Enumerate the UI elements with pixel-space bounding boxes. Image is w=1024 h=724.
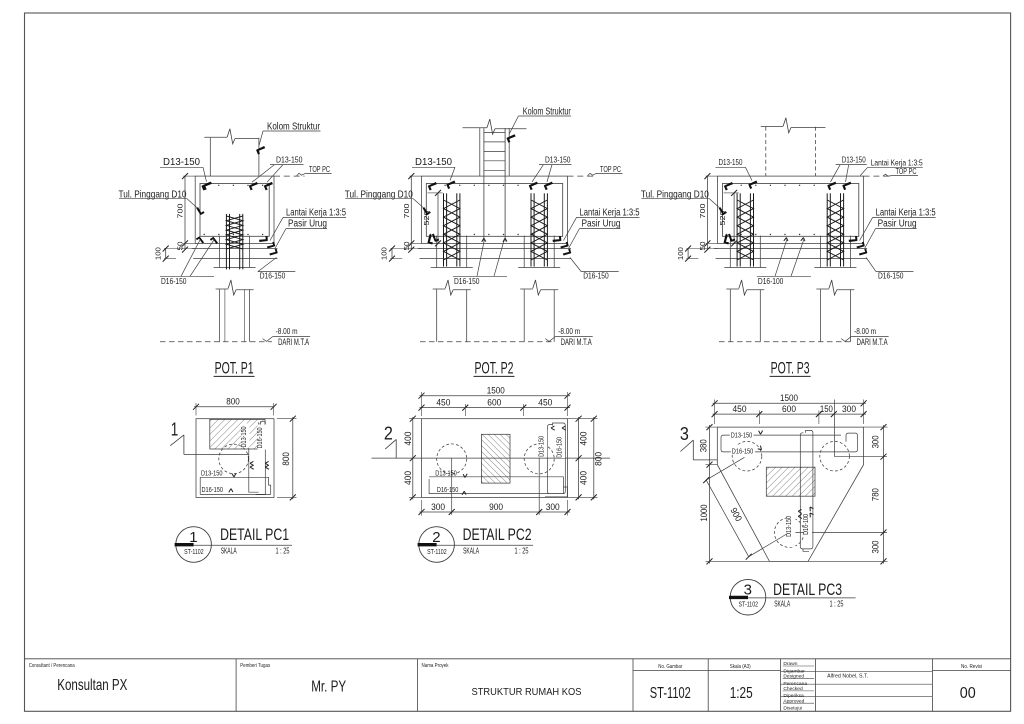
svg-text:D13-150: D13-150 <box>786 516 793 537</box>
POT. P3 rebar dots <box>726 185 727 186</box>
svg-text:POT. P3: POT. P3 <box>771 359 810 378</box>
POT. P1 layer leader hooks <box>266 240 277 251</box>
PC3 bottom pile centre leader <box>789 532 887 534</box>
POT. P3 pile 2 reinforcement <box>826 193 828 266</box>
PC2 dimension 800 right <box>593 417 595 499</box>
POT. P1 pile 1 reinforcement <box>225 214 227 270</box>
PC1 rotated label D16-150 <box>258 425 266 450</box>
svg-text:D13-150: D13-150 <box>545 155 571 165</box>
svg-text:300: 300 <box>871 435 881 448</box>
svg-text:Digambar: Digambar <box>783 668 805 674</box>
svg-text:D16-150: D16-150 <box>454 276 480 286</box>
POT. P2 TOP PC dashed level line <box>568 175 596 177</box>
PC3 title bubble <box>730 579 766 615</box>
svg-text:800: 800 <box>281 452 291 466</box>
PC1 right rebar band <box>258 422 260 448</box>
POT. P3 dimension 700 <box>706 176 708 250</box>
PC3 pile bottom (dashed circle) <box>774 518 804 548</box>
PC3 dimension 300/780/300 right <box>883 425 885 564</box>
svg-text:ST-1102: ST-1102 <box>650 685 691 702</box>
POT. P2 pile 1 lower segment <box>436 289 438 341</box>
POT. P2 -8.00 m level dashed line <box>420 341 554 343</box>
POT. P1 dimension 100 <box>165 249 167 259</box>
svg-text:1500: 1500 <box>487 386 505 396</box>
svg-text:TOP PC: TOP PC <box>600 165 621 174</box>
svg-text:D13-150: D13-150 <box>241 426 248 447</box>
svg-text:Lantai Kerja 1:3:5: Lantai Kerja 1:3:5 <box>876 207 936 218</box>
POT. P1 rebar dots <box>204 185 205 186</box>
svg-text:1500: 1500 <box>780 393 798 403</box>
PC3 dimension 900 diagonal <box>706 480 749 557</box>
svg-text:1 : 25: 1 : 25 <box>276 547 290 556</box>
svg-text:800: 800 <box>226 397 240 407</box>
POT. P3 -8.00 m level dashed line <box>719 341 851 343</box>
PC1 dimension 800 top <box>194 406 274 408</box>
POT. P2 column outline <box>479 128 481 176</box>
svg-text:300: 300 <box>431 502 445 512</box>
PC2 cut flag 2 <box>385 439 396 449</box>
POT. P1 stirrup inner outline <box>200 184 269 237</box>
PC3 dimension 450/600/150/300 <box>713 413 866 415</box>
POT. P1 waist bar hook <box>195 207 206 216</box>
svg-text:SKALA: SKALA <box>221 547 237 556</box>
svg-text:D13-150: D13-150 <box>201 470 223 477</box>
svg-text:POT. P2: POT. P2 <box>475 359 514 378</box>
POT. P3 pile 2 lower segment <box>819 289 821 341</box>
svg-text:300: 300 <box>871 541 881 554</box>
POT. P2 column ties <box>484 132 505 134</box>
svg-text:Checked: Checked <box>783 686 803 692</box>
svg-text:800: 800 <box>594 452 604 466</box>
svg-text:D13-150: D13-150 <box>539 436 546 457</box>
svg-text:D16-150: D16-150 <box>202 487 224 494</box>
PC2 rotated label D13-150 <box>539 430 547 458</box>
svg-text:DARI M.T.A: DARI M.T.A <box>857 337 888 347</box>
svg-text:400: 400 <box>579 432 589 446</box>
svg-text:Pasir Urug: Pasir Urug <box>878 219 917 230</box>
PC2 pile cap plan outline <box>422 419 568 498</box>
POT. P2 column top break line <box>463 127 488 129</box>
svg-text:D16-100: D16-100 <box>803 514 810 535</box>
PC1 small bar marks <box>232 473 236 477</box>
POT. P3 waist bar hook <box>717 207 728 216</box>
svg-text:450: 450 <box>733 404 747 414</box>
svg-text:600: 600 <box>487 398 501 408</box>
POT. P3 stirrup inner outline <box>722 184 858 237</box>
svg-text:Diperiksa: Diperiksa <box>783 693 804 699</box>
PC3 rotated label D13-150 bottom <box>787 505 795 547</box>
POT. P2 column rebar <box>483 128 485 241</box>
PC2 small bar marks <box>463 474 467 478</box>
PC1 cut flag 1 <box>170 435 184 446</box>
svg-text:ST-1102: ST-1102 <box>739 602 759 609</box>
svg-text:D13-150: D13-150 <box>435 470 457 477</box>
svg-text:1: 1 <box>189 529 197 546</box>
PC2 dimension 400/400 right <box>578 417 580 499</box>
PC2 pile centre leaders <box>451 458 453 515</box>
POT. P3 column top break line <box>761 125 783 127</box>
POT. P3 lantai kerja / pasir urug layer lines <box>714 248 867 250</box>
svg-text:700: 700 <box>698 204 707 219</box>
svg-text:D13-150: D13-150 <box>415 157 452 168</box>
svg-text:380: 380 <box>698 439 708 452</box>
svg-text:TOP PC: TOP PC <box>309 165 330 174</box>
POT. P2 pile 1 reinforcement <box>443 193 445 266</box>
PC3 top-right pile centre leader <box>834 400 836 457</box>
svg-text:D16-100: D16-100 <box>758 276 784 286</box>
PC1 rotated label D13-150 <box>241 424 249 448</box>
POT. P2 dimension 700 <box>410 176 412 250</box>
PC3 column hatched <box>766 467 815 496</box>
PC3 pile cap plan outline <box>717 427 863 561</box>
POT. P3 hidden column outline (dashed) <box>765 127 767 176</box>
PC3 label D16-150 top <box>731 445 755 453</box>
PC3 leader from bottom circle <box>749 533 790 557</box>
svg-text:Lantai Kerja 1:3:5: Lantai Kerja 1:3:5 <box>286 207 346 218</box>
svg-text:2: 2 <box>432 529 440 546</box>
POT. P1 stirrup corner hooks <box>200 180 211 192</box>
POT. P2 pile 2 lower segment <box>523 289 525 341</box>
svg-text:D16-150: D16-150 <box>257 427 264 448</box>
svg-text:No. Revisi: No. Revisi <box>961 664 982 670</box>
svg-text:450: 450 <box>538 398 552 408</box>
POT. P3 pile cap outline <box>718 176 864 243</box>
svg-text:1:25: 1:25 <box>730 685 753 702</box>
POT. P1 pile 1 <box>219 236 221 268</box>
svg-text:Konsultan PX: Konsultan PX <box>57 677 127 694</box>
POT. P2 stirrup corner hooks <box>426 180 437 192</box>
PC3 cut flag 3 <box>680 440 693 451</box>
POT. P1 lantai kerja / pasir urug layer lines <box>192 248 278 250</box>
PC3 pile top-right (dashed circle) <box>820 441 850 471</box>
POT. P1 pile 1 lower segment <box>219 289 221 341</box>
POT. P3 pile 1 lower segment <box>729 289 731 341</box>
svg-text:DETAIL PC2: DETAIL PC2 <box>463 526 532 544</box>
POT. P2 pile 1 <box>436 236 438 268</box>
POT. P2 pile 2 <box>523 236 525 268</box>
svg-text:D16-150: D16-150 <box>437 487 459 494</box>
PC2 dimension 450/600/450 <box>420 407 571 409</box>
svg-text:700: 700 <box>176 204 185 219</box>
POT. P3 pile 1 reinforcement <box>736 193 738 266</box>
PC2 dimension 300/900/300 bottom <box>420 511 571 513</box>
svg-text:SKALA: SKALA <box>774 599 790 608</box>
svg-text:DETAIL PC1: DETAIL PC1 <box>220 526 289 544</box>
POT. P2 layer leader hooks <box>560 240 571 251</box>
svg-text:D13-150: D13-150 <box>276 155 303 165</box>
svg-text:150: 150 <box>820 404 833 414</box>
PC1 column hatched <box>210 419 265 449</box>
svg-text:D16-150: D16-150 <box>556 437 563 458</box>
svg-text:Approved: Approved <box>783 698 804 704</box>
POT. P1 TOP PC dashed level line <box>274 175 305 177</box>
svg-text:D13-150: D13-150 <box>163 157 200 168</box>
svg-text:50: 50 <box>698 242 707 251</box>
PC2 pile right (dashed circle) <box>524 444 554 474</box>
POT. P2 column dowel arrows <box>482 238 486 242</box>
svg-text:D16-150: D16-150 <box>161 276 187 286</box>
svg-text:ST-1102: ST-1102 <box>184 549 204 556</box>
svg-text:SKALA: SKALA <box>463 547 479 556</box>
POT. P2 pile 2 reinforcement <box>530 193 532 266</box>
svg-text:1 : 25: 1 : 25 <box>515 547 529 556</box>
POT. P3 dimension 50 <box>706 242 718 244</box>
PC3 label D13-150 top <box>730 431 754 439</box>
svg-text:DARI M.T.A: DARI M.T.A <box>561 337 592 347</box>
svg-text:1000: 1000 <box>699 505 709 522</box>
PC1 bar leader vertical <box>249 448 259 492</box>
POT. P2 pile cap outline <box>422 176 568 243</box>
POT. P3 dimension 100 <box>687 249 689 259</box>
PC1 dimension 800 right <box>292 417 294 499</box>
PC3 rotated label D16-100 bottom <box>804 503 812 540</box>
POT. P2 dimension 50 <box>410 242 422 244</box>
svg-text:50: 50 <box>402 242 411 251</box>
PC3 pile top-left (dashed circle) <box>732 441 762 471</box>
svg-text:DETAIL PC3: DETAIL PC3 <box>773 581 842 599</box>
PC2 column hatched <box>481 434 510 483</box>
svg-text:1 : 25: 1 : 25 <box>830 599 844 608</box>
POT. P3 pile 1 <box>729 236 731 268</box>
PC3 section cut line 3 <box>693 459 717 461</box>
svg-text:Alfred Nobel, S.T.: Alfred Nobel, S.T. <box>827 674 868 680</box>
POT. P2 dimension 520 <box>437 193 439 244</box>
POT. P2 rebar dots <box>430 185 431 186</box>
PC2 title bubble <box>419 527 455 563</box>
svg-text:Lantai Kerja 1:3:5: Lantai Kerja 1:3:5 <box>871 158 923 168</box>
POT. P1 dimension 700 <box>184 176 186 250</box>
PC2 pile left (dashed circle) <box>437 444 467 474</box>
POT. P1 column top break line <box>204 136 227 138</box>
svg-text:D13-150: D13-150 <box>842 155 866 165</box>
svg-text:Perencana: Perencana <box>783 681 807 687</box>
svg-text:300: 300 <box>546 502 560 512</box>
POT. P1 pile cap outline <box>195 176 274 243</box>
svg-text:D13-150: D13-150 <box>719 158 743 167</box>
POT. P2 waist bar hook <box>421 207 432 216</box>
svg-text:ST-1102: ST-1102 <box>427 549 447 556</box>
PC2 section cut line 2 <box>372 457 611 459</box>
svg-text:DARI M.T.A: DARI M.T.A <box>278 337 309 347</box>
svg-text:Nama Proyek: Nama Proyek <box>422 663 449 669</box>
svg-text:TOP PC: TOP PC <box>896 167 917 176</box>
PC3 dimension 380/1000 left <box>709 425 711 564</box>
PC1 pile (dashed circle) <box>219 444 249 474</box>
POT. P3 dimension 520 <box>733 193 735 244</box>
PC2 bottom rebar band <box>429 477 563 494</box>
svg-text:D13-150: D13-150 <box>731 433 753 440</box>
PC1 pile cap plan outline <box>196 419 274 498</box>
svg-text:Pasir Urug: Pasir Urug <box>582 219 621 230</box>
POT. P2 lantai kerja / pasir urug layer lines <box>418 248 571 250</box>
svg-text:No. Gambar: No. Gambar <box>658 664 682 670</box>
title block row dividers <box>781 671 933 673</box>
svg-text:3: 3 <box>744 582 752 599</box>
svg-text:-8.00 m: -8.00 m <box>558 326 580 336</box>
svg-text:2: 2 <box>384 424 393 444</box>
svg-text:450: 450 <box>436 398 450 408</box>
svg-text:D16-150: D16-150 <box>732 448 754 455</box>
svg-text:3: 3 <box>680 424 689 444</box>
svg-text:Pemberi Tugas: Pemberi Tugas <box>240 663 270 669</box>
svg-text:Mr. PY: Mr. PY <box>311 678 346 695</box>
svg-text:50: 50 <box>176 242 185 251</box>
svg-text:100: 100 <box>153 247 162 260</box>
svg-text:00: 00 <box>960 685 976 702</box>
svg-text:Skala (A3): Skala (A3) <box>730 664 751 670</box>
PC2 right rebar band <box>547 423 565 494</box>
POT. P2 dimension 100 <box>391 249 393 259</box>
svg-text:Pasir Urug: Pasir Urug <box>288 219 327 230</box>
svg-text:700: 700 <box>402 204 411 219</box>
PC1 bottom rebar band <box>200 476 268 478</box>
svg-text:-8.00 m: -8.00 m <box>276 326 298 336</box>
PC2 dimension 1500 top <box>420 395 571 397</box>
POT. P3 pile 2 <box>819 236 821 268</box>
PC1 section cut line 1 <box>184 453 249 455</box>
POT. P1 column outline <box>209 138 211 176</box>
PC3 dimension 1500 top <box>713 402 866 404</box>
POT. P1 dimension 50 <box>183 242 195 244</box>
POT. P1 -8.00 m level dashed line <box>160 341 272 343</box>
PC1 title bubble <box>176 527 212 563</box>
POT. P2 stirrup inner outline <box>426 184 562 237</box>
svg-text:1: 1 <box>171 420 179 440</box>
PC2 dimension 400/400 left <box>412 417 414 499</box>
svg-text:Lantai Kerja 1:3:5: Lantai Kerja 1:3:5 <box>580 207 640 218</box>
svg-text:400: 400 <box>403 471 413 485</box>
svg-text:300: 300 <box>842 404 856 414</box>
svg-text:900: 900 <box>489 502 503 512</box>
svg-text:400: 400 <box>579 471 589 485</box>
svg-text:Consultant / Perencana: Consultant / Perencana <box>29 663 75 669</box>
svg-text:STRUKTUR RUMAH KOS: STRUKTUR RUMAH KOS <box>472 687 582 698</box>
svg-text:600: 600 <box>782 404 796 414</box>
svg-text:-8.00 m: -8.00 m <box>854 326 876 336</box>
PC2 rotated label D16-150 <box>557 430 565 458</box>
svg-text:400: 400 <box>403 432 413 446</box>
title block header underlines <box>633 670 708 672</box>
svg-text:Disetujui: Disetujui <box>783 706 802 712</box>
PC3 leader from top-left circle <box>706 457 744 480</box>
PC3 vertical rebar band <box>800 430 813 549</box>
POT. P3 layer leader hooks <box>856 240 867 251</box>
svg-text:100: 100 <box>676 247 685 260</box>
POT. P3 TOP PC dashed level line <box>864 175 891 177</box>
svg-text:POT. P1: POT. P1 <box>215 359 254 378</box>
POT. P3 stirrup corner hooks <box>723 180 734 192</box>
PC3 top rebar band <box>721 433 858 452</box>
svg-text:100: 100 <box>380 247 389 260</box>
svg-text:780: 780 <box>871 488 881 501</box>
